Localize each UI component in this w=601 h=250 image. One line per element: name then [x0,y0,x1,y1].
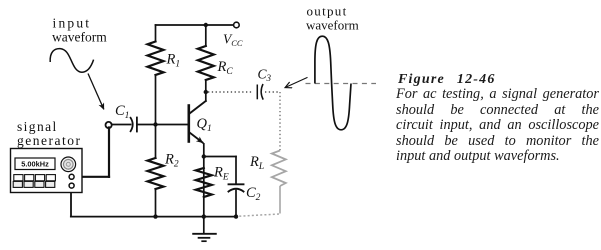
svg-text:RE: RE [213,165,229,183]
svg-text:output: output [307,4,348,19]
svg-text:5.00kHz: 5.00kHz [21,159,49,168]
svg-text:RC: RC [217,59,234,77]
svg-text:input: input [53,16,92,31]
svg-text:C1: C1 [115,103,129,121]
svg-text:VCC: VCC [223,32,243,48]
svg-text:C3: C3 [258,67,272,84]
svg-text:waveform: waveform [306,18,359,33]
svg-text:Q1: Q1 [197,116,212,134]
svg-text:R1: R1 [166,52,181,70]
svg-text:generator: generator [17,133,81,148]
svg-text:signal: signal [17,119,58,134]
svg-text:R2: R2 [164,152,179,170]
svg-text:RL: RL [249,154,264,172]
svg-text:C2: C2 [246,185,261,203]
svg-text:waveform: waveform [52,30,107,45]
